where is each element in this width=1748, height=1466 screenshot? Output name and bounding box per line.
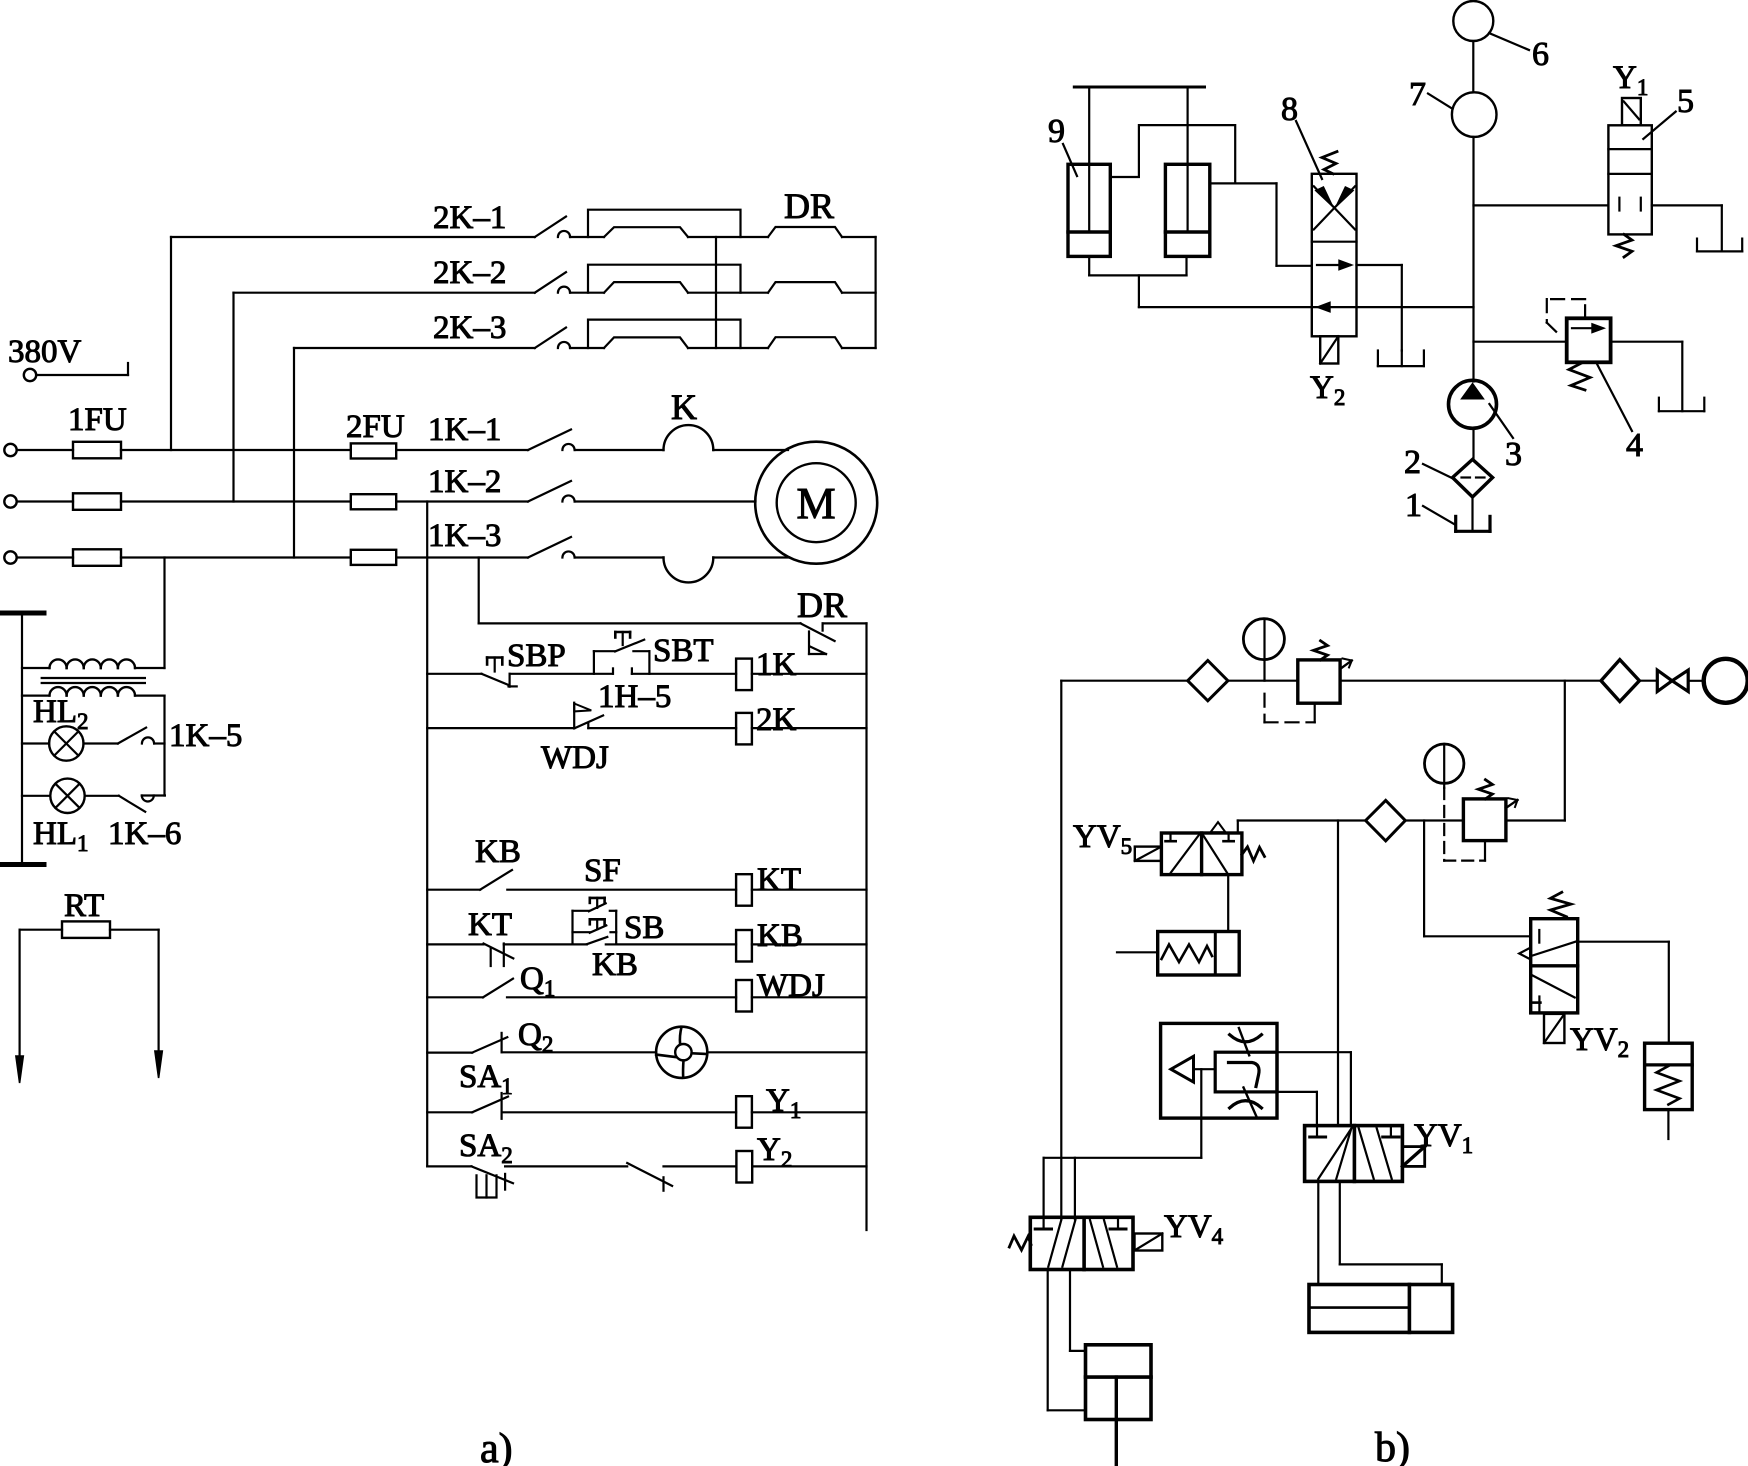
wire phase2 to 2FU [121,500,351,502]
svg-text:SA1: SA1 [459,1059,513,1099]
inlet filter diamond [1601,660,1639,702]
riser phase2 to 2K-2 [232,293,234,502]
cylinder A body [1068,164,1110,256]
svg-text:1K–5: 1K–5 [169,718,242,754]
svg-text:M: M [796,479,835,528]
svg-text:1FU: 1FU [68,402,127,438]
filter diamond level1 [1188,661,1228,701]
valve YV2 port ticks [1538,930,1540,943]
valve 8 body [1312,174,1357,336]
filter diamond level2 [1366,800,1406,841]
svg-text:KB: KB [592,947,638,983]
RT lead right with arrow [158,930,160,1055]
cylinder A rod [1088,87,1090,230]
svg-text:KT: KT [757,862,801,898]
horizontal cylinder [1309,1285,1453,1333]
svg-text:Y1: Y1 [1613,60,1648,100]
valve YV5 exhaust triangle [1211,822,1226,832]
lamp circuit right rail [163,696,165,796]
svg-text:4: 4 [1626,427,1643,464]
DR right bus [874,237,876,348]
svg-text:1H–5: 1H–5 [598,679,671,715]
vertical cylinder [1086,1345,1152,1420]
regulator level1 relief arrow [1340,661,1352,670]
svg-text:RT: RT [64,888,104,924]
svg-text:SA2: SA2 [459,1128,513,1168]
solenoid Y2 of valve 8 [1320,336,1338,363]
ladder right rail [865,623,867,1230]
valve YV2 body [1531,919,1578,1013]
throttle inner box [1215,1052,1277,1092]
wire row1 to right rail [752,673,867,675]
svg-text:1K–2: 1K–2 [428,464,501,500]
svg-text:YV2: YV2 [1570,1022,1629,1062]
regulator level2 body [1463,799,1506,841]
svg-text:HL1: HL1 [33,816,89,856]
drop phase3 to control line [478,558,480,624]
valve 5 body [1608,125,1651,234]
ladder left rail [426,502,428,1167]
cylinder B rod [1186,87,1188,230]
valve 8 arrow right-flow [1317,264,1350,266]
rung wire row5 [427,996,483,998]
YV2 output to cushion [1578,941,1669,943]
label 6 leader [1489,33,1529,50]
svg-text:a): a) [480,1426,513,1466]
svg-text:2K–1: 2K–1 [433,200,506,236]
valve 5 closed ports [1618,198,1620,211]
valve YV2 flow paths [1532,942,1576,956]
rung wire row2 [427,727,574,729]
wires 2FU to 1K contacts [396,449,528,451]
gauge 7 circle [1452,92,1497,137]
svg-text:DR: DR [797,585,847,625]
rung wire row8 [427,1165,471,1167]
cylinder B body [1165,164,1209,256]
regulator level1 body [1298,660,1340,703]
one-way throttle outer box [1161,1023,1277,1118]
valve YV2 input line [1423,821,1425,937]
valve 5 drain line [1652,204,1722,206]
valve 4 body [1567,318,1611,362]
svg-text:YV5: YV5 [1073,819,1132,859]
DR bypass frame row3 [588,320,741,348]
cylinder group 9 mount line [1074,86,1204,89]
valve 4 spring [1569,362,1590,390]
feed line level2 to YV1 [1337,821,1339,1126]
svg-text:1K–3: 1K–3 [428,518,501,554]
valve YV5 body [1161,833,1242,875]
gauge level1 [1243,619,1284,660]
YV4 lower ports [1047,1270,1049,1411]
svg-text:1: 1 [1405,487,1422,524]
valve 8 spring [1322,152,1337,174]
svg-text:Q2: Q2 [518,1017,553,1057]
vertical cylinder rod [1115,1377,1118,1466]
valve 8 right port to tank [1357,264,1402,266]
valve YV4 hatches [1048,1220,1061,1267]
regulator level2 relief arrow [1506,800,1518,808]
svg-text:Y1: Y1 [766,1083,801,1123]
tank under valve 8 [1377,351,1379,367]
lamp circuit left rail [21,613,23,865]
valve 4 outlet to tank [1611,341,1683,343]
cylinder top pipework [1110,125,1235,183]
svg-text:YV4: YV4 [1164,1209,1224,1249]
gauge 6 circle [1453,1,1493,41]
rung wire row6 [427,1051,472,1053]
valve YV2 pilot arrow [1519,948,1531,960]
label 3 leader [1489,404,1513,438]
svg-text:6: 6 [1532,36,1549,73]
svg-text:KB: KB [475,834,521,870]
branch to valve 5 [1474,204,1609,206]
valve YV5 top port [1237,821,1239,834]
valve YV1 body [1305,1126,1403,1182]
rung wire row7 [427,1111,472,1113]
svg-text:3: 3 [1505,436,1522,473]
rung wire row3 [427,889,480,891]
throttle restrictor symbol [1230,1035,1262,1042]
tank symbol right of valve 5 [1696,239,1698,252]
valve 5 spring [1616,234,1632,257]
svg-text:SB: SB [624,910,664,946]
filter 2 diamond [1453,459,1493,497]
valve YV2 spring [1551,892,1571,917]
svg-text:DR: DR [784,186,834,226]
check valve down line [1200,1069,1202,1158]
rung wire row4 [427,943,483,945]
svg-text:YV1: YV1 [1414,1118,1473,1158]
terminal bar top [0,611,44,616]
thermal relay DR heaters row2 [604,282,688,293]
YV1 lower ports [1317,1181,1319,1284]
manifold line above YV4 [1044,1157,1202,1159]
valve YV4 body [1030,1217,1133,1269]
svg-text:Q1: Q1 [520,961,555,1001]
gauge level2 pilot dashed [1443,788,1445,861]
hydraulic main line [1472,137,1474,382]
valve YV4 port ticks [1035,1228,1051,1231]
line pump to filter [1472,428,1474,459]
svg-text:SBT: SBT [653,633,714,669]
muffler left line [1117,951,1158,953]
phase terminal circles L1 L2 L3 [4,444,16,456]
transformer core [42,677,145,679]
DR linkage vertical [715,237,717,348]
valve YV1 hatches [1318,1128,1352,1179]
svg-text:KT: KT [468,907,512,943]
branch to valve 4 [1474,341,1567,343]
contact row8 second (interlock) [627,1163,672,1186]
throttle to YV1 lines [1277,1051,1351,1053]
svg-text:WDJ: WDJ [757,968,825,1004]
terminal bar bottom [0,862,44,867]
svg-text:7: 7 [1409,76,1426,113]
svg-text:1K–6: 1K–6 [108,816,181,852]
380V supply terminal [24,369,36,381]
svg-text:2FU: 2FU [346,409,405,445]
svg-text:2K–2: 2K–2 [433,255,506,291]
svg-text:SF: SF [584,853,621,889]
riser phase3 to 2K-3 [293,348,295,558]
suction line [1471,497,1473,531]
svg-text:2: 2 [1404,444,1421,481]
drop phase3 to transformer [163,558,165,669]
svg-text:2K: 2K [756,702,797,738]
muffler block [1158,932,1240,976]
regulator level2 spring [1478,780,1492,799]
svg-text:KB: KB [757,918,803,954]
DR bypass frame row2 [588,265,741,293]
valve YV5 spring [1242,847,1265,861]
valve 8 crossed arrows [1314,186,1355,229]
shutoff valve [1657,670,1672,691]
transformer T secondary [22,694,50,696]
svg-text:Y2: Y2 [1310,370,1345,410]
svg-text:K: K [671,387,697,427]
valve YV1 port ticks [1316,1126,1318,1136]
control top wire [479,622,801,624]
svg-text:SBP: SBP [507,638,566,674]
branch level1 to level2 [1564,681,1566,821]
thermal relay DR heaters row3 [604,337,688,348]
svg-text:2K–3: 2K–3 [433,310,506,346]
valve 4 pilot dashed [1584,299,1586,318]
svg-text:b): b) [1375,1425,1410,1466]
wire phase1 to 2FU [121,449,351,451]
left supply rail [1060,681,1062,1219]
svg-text:5: 5 [1677,83,1694,120]
svg-text:1K: 1K [756,647,797,683]
wire phase3 to 2FU [121,556,351,558]
regulator level1 spring [1314,641,1328,660]
tank 1 [1454,516,1457,531]
rung wire row1 [427,673,481,675]
pump 3 [1449,380,1497,428]
gauge level2 [1425,744,1464,783]
RT lead left with arrow [19,930,21,1060]
riser phase1 to 2K-1 [170,237,172,450]
valve YV5 bottom port [1227,875,1229,932]
regulator level1 pilot dashed [1263,694,1265,723]
tank under valve 4 [1658,398,1660,412]
svg-text:1K–1: 1K–1 [428,412,501,448]
check valve triangle [1171,1056,1194,1082]
air line level2 [1238,819,1366,821]
air supply circle [1704,659,1748,703]
transformer T primary [22,667,50,669]
fan motor symbol [656,1027,707,1078]
air line level1 [1061,680,1187,682]
svg-text:WDJ: WDJ [541,740,609,776]
DR bypass frame row1 [588,210,741,237]
valve YV4 spring [1009,1236,1031,1250]
svg-text:380V: 380V [8,334,82,370]
motor M [755,442,877,564]
valve 8 arrow left-flow [1139,306,1474,308]
cylinder bottom pipework [1088,256,1090,275]
air cushion cylinder [1645,1043,1693,1109]
